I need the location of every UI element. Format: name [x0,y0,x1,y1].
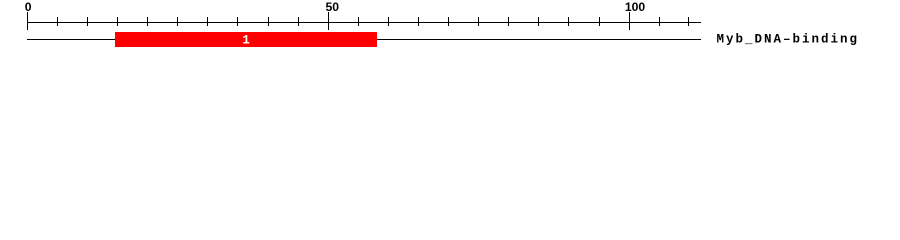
ruler major tick 50 [328,12,330,30]
ruler axis line [27,22,701,24]
ruler minor ticks every 5 residues [58,17,689,26]
svg-text:0: 0 [25,0,32,14]
domain box Myb_DNA-binding (red) [115,32,377,47]
svg-text:1: 1 [242,33,250,47]
ruler major tick 100 [629,12,631,30]
svg-text:Myb_DNA–binding: Myb_DNA–binding [717,32,860,46]
ruler major tick 0 [27,12,29,30]
protein backbone line [27,39,701,41]
svg-text:50: 50 [326,0,340,14]
svg-text:100: 100 [625,0,646,14]
